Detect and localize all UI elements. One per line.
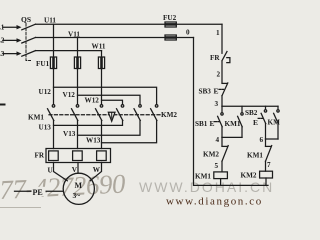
wire V11 drop bbox=[77, 38, 79, 69]
svg-text:FR: FR bbox=[35, 151, 45, 159]
wire PE lead bbox=[15, 190, 64, 192]
contactor KM1 main contact c bbox=[96, 105, 103, 121]
fuse FU1 c bbox=[98, 57, 104, 69]
wire motor U lead bbox=[54, 163, 68, 181]
svg-text:5: 5 bbox=[215, 162, 219, 170]
mark triangle bbox=[108, 112, 115, 121]
switch QS pole 3 blade bbox=[22, 51, 36, 57]
wire U12 branch to KM2 bbox=[54, 87, 157, 104]
wire motor V lead bbox=[77, 163, 79, 174]
svg-text:KM1: KM1 bbox=[225, 120, 241, 128]
svg-text:KM2: KM2 bbox=[161, 111, 177, 119]
switch QS pole 1 blade bbox=[22, 24, 36, 30]
svg-text:E: E bbox=[253, 118, 258, 127]
wire node 6 return bbox=[266, 138, 279, 140]
watermark grey site text bbox=[139, 179, 274, 195]
contactor KM2 main contact c bbox=[151, 105, 158, 121]
svg-text:W: W bbox=[93, 166, 101, 174]
svg-text:1: 1 bbox=[216, 29, 220, 37]
svg-text:www.diangon.co: www.diangon.co bbox=[166, 196, 263, 208]
wire U12 drop bbox=[53, 69, 55, 105]
node L3 arrowhead bbox=[17, 51, 22, 55]
wire W13 branch from KM2c bbox=[102, 121, 157, 143]
wire V12 drop bbox=[77, 69, 79, 105]
svg-text:3: 3 bbox=[215, 100, 219, 108]
svg-text:W13: W13 bbox=[86, 136, 101, 144]
wire W13 drop bbox=[101, 121, 103, 149]
svg-text:2: 2 bbox=[217, 71, 221, 79]
svg-text:E: E bbox=[214, 86, 219, 95]
svg-text:KM1: KM1 bbox=[247, 152, 263, 160]
watermark red site text bbox=[166, 196, 263, 208]
switch QS pole 2 blade bbox=[22, 37, 36, 43]
contactor KM1 main contact b bbox=[72, 105, 79, 121]
wire V13 branch from KM2b bbox=[78, 121, 141, 136]
contact KM2 aux no bbox=[274, 106, 280, 139]
wire U11 drop bbox=[53, 24, 55, 68]
wire U13 branch from KM2a bbox=[54, 121, 123, 126]
svg-text:W11: W11 bbox=[92, 42, 106, 50]
wire V12 branch to KM2 bbox=[78, 95, 141, 104]
wire node3 bar bbox=[222, 105, 278, 107]
contactor KM2 main contact b bbox=[134, 105, 141, 121]
wire W11 drop bbox=[101, 51, 103, 69]
wire 1 drop to control bbox=[221, 24, 223, 53]
svg-text:L1: L1 bbox=[0, 24, 5, 32]
wire L1 lead bbox=[3, 26, 18, 28]
svg-text:SB3: SB3 bbox=[199, 87, 212, 95]
svg-text:4: 4 bbox=[216, 136, 220, 144]
wire node 4 return bbox=[222, 136, 242, 138]
wire motor W lead bbox=[90, 163, 101, 181]
fuse FU2 b bbox=[165, 35, 176, 40]
wire V13 drop bbox=[77, 121, 79, 149]
button SB2 no bbox=[258, 106, 266, 139]
coil KM2 bbox=[260, 171, 273, 185]
fuse FU1 b bbox=[74, 57, 80, 69]
svg-text:V12: V12 bbox=[63, 91, 76, 99]
watermark handwritten number bbox=[0, 168, 127, 205]
svg-text:L2: L2 bbox=[0, 37, 5, 45]
relay FR heater box bbox=[46, 149, 111, 163]
contactor KM1 main contact a bbox=[48, 105, 55, 121]
svg-text:PE: PE bbox=[33, 188, 43, 197]
svg-text:U11: U11 bbox=[44, 17, 56, 25]
button SB1 no bbox=[215, 106, 224, 137]
svg-text:V: V bbox=[72, 166, 78, 174]
node L2 arrowhead bbox=[17, 38, 22, 42]
svg-text:U: U bbox=[48, 167, 54, 175]
contactor KM2 main contact a bbox=[117, 105, 124, 121]
wire node 2 bbox=[221, 62, 223, 83]
left edge tick bbox=[0, 104, 5, 106]
svg-text:E: E bbox=[210, 119, 215, 128]
svg-text:FU2: FU2 bbox=[163, 14, 177, 22]
svg-text:WWW.DOHAI.CN: WWW.DOHAI.CN bbox=[139, 179, 274, 195]
wire L2 lead bbox=[3, 39, 18, 41]
svg-text:KM2: KM2 bbox=[203, 150, 219, 158]
node L1 arrowhead bbox=[17, 25, 22, 29]
svg-text:KM2: KM2 bbox=[268, 118, 281, 126]
wire L3 lead bbox=[3, 53, 18, 55]
svg-text:6: 6 bbox=[260, 136, 264, 144]
wire bus line2 V11 bbox=[36, 37, 194, 39]
linkage dashed KM1-KM2 bbox=[49, 114, 160, 116]
svg-text:L3: L3 bbox=[0, 50, 5, 58]
wire W12 branch to KM2 bbox=[102, 100, 123, 104]
svg-text:7: 7 bbox=[267, 161, 271, 169]
relay FR element a bbox=[49, 151, 59, 161]
relay FR nc contact bbox=[222, 52, 230, 63]
svg-text:FR: FR bbox=[210, 54, 220, 62]
svg-text:KM2: KM2 bbox=[241, 172, 257, 180]
button SB3 nc bbox=[219, 83, 228, 96]
svg-text:U12: U12 bbox=[39, 88, 52, 96]
motor M circle bbox=[63, 173, 94, 204]
svg-text:V11: V11 bbox=[68, 30, 80, 38]
svg-text:V13: V13 bbox=[63, 130, 76, 138]
wire node 3 bbox=[221, 96, 223, 107]
wire bus line3 W11 bbox=[36, 50, 102, 52]
svg-text:W12: W12 bbox=[85, 97, 100, 105]
wire bus line1 U11 bbox=[36, 23, 223, 25]
svg-text:U13: U13 bbox=[39, 124, 52, 132]
wire U13 line bbox=[53, 121, 55, 149]
relay FR element c bbox=[97, 151, 107, 161]
fuse FU1 a bbox=[50, 57, 56, 69]
svg-text:QS: QS bbox=[21, 15, 31, 24]
coil KM1 bbox=[214, 172, 228, 186]
svg-text:FU1: FU1 bbox=[36, 60, 50, 68]
contact KM1 aux no bbox=[238, 106, 244, 137]
fuse FU2 a bbox=[165, 22, 176, 27]
wire W12 drop bbox=[101, 69, 103, 105]
svg-text:KM1: KM1 bbox=[195, 172, 211, 180]
wire 0 rail bbox=[194, 38, 269, 186]
contact KM1 nc interlock bbox=[266, 139, 272, 171]
switch QS linkage dashed bbox=[26, 24, 31, 61]
svg-text:3~: 3~ bbox=[73, 191, 81, 200]
svg-text:KM1: KM1 bbox=[28, 114, 44, 122]
contact KM2 nc interlock bbox=[222, 137, 228, 172]
svg-text:SB2: SB2 bbox=[245, 109, 258, 117]
relay FR element b bbox=[73, 151, 83, 161]
label PE bbox=[32, 187, 46, 197]
svg-text:SB1: SB1 bbox=[195, 120, 208, 128]
svg-text:M: M bbox=[75, 181, 83, 190]
svg-text:0: 0 bbox=[186, 29, 190, 37]
